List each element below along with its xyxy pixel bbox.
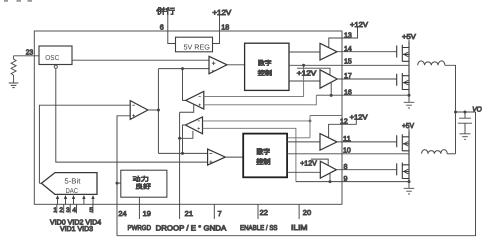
junction powergood: [116, 182, 119, 185]
svg-text:ILIM: ILIM: [291, 223, 308, 232]
svg-text:6: 6: [160, 23, 164, 32]
pin 19 stub from power good: [138, 197, 140, 219]
driver2 return wire: [329, 173, 331, 182]
top edge cropped text marks: [4, 0, 32, 2]
svg-text:5V REG: 5V REG: [184, 42, 211, 51]
comp1 - mark: [212, 70, 215, 72]
box1 output to lower driver: [289, 80, 320, 82]
ampA + mark: [199, 104, 201, 106]
MOSFET ph2 upper: [397, 131, 409, 154]
inductor ph1: [418, 61, 445, 65]
svg-text:10: 10: [343, 145, 351, 154]
svg-text:5: 5: [89, 207, 93, 214]
wire DAC point: [39, 182, 41, 184]
svg-text:21: 21: [185, 209, 193, 218]
ampA - mark: [199, 96, 201, 98]
5-Bit DAC pentagon: [41, 173, 97, 195]
OSC box: [39, 46, 72, 65]
svg-text:DROOP / E ° GNDA: DROOP / E ° GNDA: [156, 223, 227, 232]
pin 6 stub wire: [168, 15, 176, 44]
box1 output to upper driver: [289, 51, 320, 53]
pin 18 stub wire: [213, 16, 220, 44]
node error amp output: [157, 109, 160, 112]
PWM comparator comp2: [208, 149, 226, 165]
pin 22 stub: [257, 204, 259, 219]
comp1 output wire: [227, 64, 245, 66]
pin 7 stub: [213, 204, 215, 219]
pin11 wire ugate2: [337, 141, 397, 143]
VID input arrows 1-5: [57, 199, 93, 214]
junction fet2 source: [408, 180, 411, 183]
DROOP branch to ampA: [180, 105, 194, 113]
digital control 2 text row1: [257, 148, 270, 155]
wire to power good box: [117, 182, 121, 184]
error amp output vertical wire: [157, 69, 159, 154]
svg-text:13: 13: [344, 30, 352, 39]
gate driver ph2 lower: [320, 161, 336, 178]
svg-text:7: 7: [218, 209, 222, 218]
svg-text:14: 14: [344, 44, 352, 53]
ampA output wire up: [183, 69, 186, 101]
digital control 1 text row1: [258, 60, 271, 66]
+12V wire ph2 lower driver: [311, 159, 328, 165]
svg-text:VID1 VID3: VID1 VID3: [60, 226, 93, 233]
box2 output to lower driver ph2: [287, 171, 320, 173]
svg-text:19: 19: [143, 209, 151, 218]
driver1 return wire: [330, 82, 332, 95]
sense hub vertical x310: [309, 116, 311, 138]
digital control 2 text row2: [256, 158, 270, 165]
gate driver ph1 lower: [320, 70, 337, 88]
svg-text:+12V: +12V: [300, 159, 317, 168]
junction DROOP ampB: [178, 137, 181, 140]
current sense amp A (points left): [186, 91, 204, 109]
svg-text:+5V: +5V: [402, 121, 414, 130]
gate driver ph1 upper: [320, 43, 337, 60]
wire inductor1 to combine node: [445, 65, 456, 154]
junction phase1 sense: [302, 64, 305, 67]
svg-text:2: 2: [59, 207, 63, 214]
ampA top input sense wire from phase1: [204, 65, 304, 96]
junction VO left: [454, 111, 457, 114]
DROOP branch to ampB: [180, 131, 193, 139]
error amp output wire: [148, 109, 159, 111]
junction ampB out: [181, 152, 184, 155]
+12V wire ph1 lower driver: [297, 68, 330, 75]
OSC ramp1 wire to comp1: [72, 59, 209, 61]
svg-text:11: 11: [343, 134, 351, 143]
svg-text:VO: VO: [472, 106, 482, 113]
junction driver2 return: [329, 180, 332, 183]
OSC bottom circle: [54, 65, 57, 68]
VO feedback wire down and around: [117, 112, 476, 236]
svg-text:ENABLE / SS: ENABLE / SS: [240, 224, 278, 232]
VO sense vertical wire (pin 24 line): [117, 116, 130, 236]
svg-text:+12V: +12V: [350, 113, 368, 122]
ampB + mark: [198, 127, 200, 129]
pin10 phase2 wire: [287, 153, 409, 155]
comp1 + mark: [212, 61, 216, 65]
svg-text:+12V: +12V: [297, 68, 317, 77]
power good CJK text row2: [136, 183, 151, 189]
svg-text:3: 3: [66, 207, 70, 214]
wire inductor2 to combine node: [447, 153, 455, 155]
comp2 output wire: [225, 156, 243, 158]
pin 20 stub: [298, 204, 300, 219]
ground output cap: [460, 134, 471, 140]
digital control box 1: [245, 43, 289, 90]
pin17 wire lgate1: [337, 78, 397, 80]
pin14 wire ugate1: [337, 51, 397, 53]
gate driver ph2 upper: [320, 134, 337, 151]
+5V lead ph1: [408, 40, 410, 48]
DROOP line vertical to pin 21: [179, 112, 181, 219]
svg-text:20: 20: [303, 208, 311, 217]
box2 output to upper driver ph2: [287, 141, 320, 143]
pin13 wire: [329, 28, 358, 48]
+5V lead ph2: [408, 129, 410, 137]
wire pin23 to OSC: [14, 55, 40, 57]
MOSFET ph2 lower: [397, 154, 409, 182]
ground ph2: [404, 182, 415, 194]
svg-text:16: 16: [344, 88, 352, 97]
ground under RT: [9, 83, 19, 88]
svg-text:15: 15: [344, 57, 352, 66]
junction fet1 source: [408, 94, 411, 97]
output capacitor: [458, 112, 472, 134]
power good CJK text row1: [133, 176, 149, 182]
inductor ph2: [422, 150, 448, 154]
ampA bottom input sense wire from pgnd1: [204, 95, 316, 104]
svg-text:OSC: OSC: [45, 53, 59, 62]
ampB top input sense wire: [203, 120, 311, 122]
comp2 - mark: [209, 152, 212, 154]
IC boundary box: [34, 31, 342, 204]
VO output wire: [456, 111, 476, 113]
VID arrowheads: [56, 195, 95, 199]
sense hub wire into box2: [287, 137, 310, 139]
svg-text:VID0 VID2 VID4: VID0 VID2 VID4: [50, 218, 101, 226]
error amp + mark: [132, 114, 135, 117]
error amp triangle: [130, 101, 148, 120]
svg-text:+5V: +5V: [402, 32, 416, 41]
power good box: [121, 170, 167, 197]
svg-text:5-Bit: 5-Bit: [64, 176, 80, 185]
current sense amp B (points left): [185, 117, 202, 134]
svg-text:DAC: DAC: [66, 188, 79, 195]
5V REG box: [176, 37, 213, 52]
junction comp1 minus: [181, 67, 184, 70]
svg-text:PWRGD: PWRGD: [128, 225, 152, 232]
svg-text:8: 8: [344, 162, 348, 171]
svg-text:12: 12: [340, 116, 348, 125]
comp2 + mark: [209, 161, 212, 164]
digital control box 2: [243, 134, 287, 178]
comp1 minus wire: [158, 68, 209, 70]
PWM comparator comp1: [209, 56, 227, 74]
comp2 minus wire: [158, 152, 207, 154]
digital control 1 text row2: [258, 70, 272, 76]
svg-text:+12V: +12V: [212, 8, 231, 17]
svg-text:18: 18: [221, 23, 229, 32]
MOSFET ph1 lower: [397, 65, 409, 95]
ampB output wire down: [183, 125, 186, 153]
junction driver1 return: [330, 94, 333, 97]
ampB - mark: [198, 120, 200, 122]
DAC reference vertical wire: [39, 105, 130, 183]
pin16 pgnd1 wire: [316, 94, 409, 96]
sense hub wire to border: [310, 115, 342, 117]
MOSFET ph1 upper: [397, 42, 409, 65]
junction ampB top: [309, 120, 312, 123]
svg-text:24: 24: [118, 209, 126, 218]
pin15 phase1 wire: [289, 64, 409, 66]
resistor RT zigzag: [11, 56, 16, 83]
svg-text:17: 17: [344, 71, 352, 80]
OSC ramp2 wire down and right to comp2: [56, 68, 208, 162]
error amp - mark: [132, 104, 135, 106]
svg-text:+12V: +12V: [350, 20, 368, 29]
svg-text:4: 4: [72, 207, 76, 214]
ampB bottom input sense wire from pgnd2: [203, 128, 296, 181]
label pin 6 enable CJK: [156, 7, 175, 15]
pin12 wire: [329, 120, 357, 138]
svg-text:22: 22: [260, 208, 268, 217]
junction VO cap: [464, 111, 467, 114]
ground ph1: [404, 95, 415, 108]
pin9 pgnd2 wire: [296, 181, 409, 183]
pin8 wire lgate2: [336, 169, 396, 171]
svg-text:9: 9: [344, 174, 348, 183]
svg-text:23: 23: [26, 48, 33, 57]
svg-text:1: 1: [53, 207, 57, 214]
